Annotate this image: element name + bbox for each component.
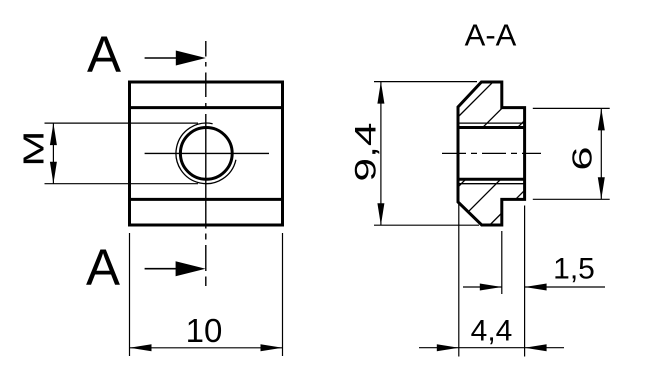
hatch line c610	[483, 108, 502, 127]
thread major diameter line upper	[458, 122, 525, 124]
dimension 1,5 extension lines	[501, 231, 503, 294]
top view lower step edge	[130, 198, 283, 201]
thread bore line lower	[458, 178, 525, 181]
thread major diameter line lower	[458, 183, 525, 185]
hatch line c645 lower	[458, 180, 465, 187]
svg-text:M: M	[18, 130, 50, 166]
hatch line c715 step	[516, 190, 525, 199]
svg-text:10: 10	[186, 312, 223, 349]
threaded hole bore circle	[180, 127, 232, 179]
dimension 1,5 line	[463, 286, 502, 288]
svg-text:A: A	[86, 239, 120, 296]
dimension 10 line	[130, 347, 283, 349]
hatch line c575	[458, 82, 493, 117]
vertical centerline	[205, 41, 207, 286]
hatch line c645 upper	[518, 121, 525, 128]
dimension 9,4 line	[380, 82, 382, 226]
dimension M extension lines	[45, 122, 199, 124]
dimension 4,4 line	[419, 347, 564, 349]
dimension M line	[52, 123, 54, 184]
dimension 9,4 extension lines	[374, 81, 477, 83]
dimension 6 line	[600, 108, 602, 199]
svg-text:6: 6	[566, 147, 597, 171]
section arrow bottom	[145, 268, 180, 270]
section centerline	[442, 152, 541, 154]
section outline	[458, 82, 525, 225]
top view outline	[130, 82, 283, 225]
svg-text:1,5: 1,5	[553, 253, 595, 286]
dimension 6 extension lines	[533, 107, 610, 109]
hatch line c715 bottom	[490, 213, 502, 225]
top view upper step edge	[130, 106, 283, 109]
svg-text:A-A: A-A	[465, 18, 517, 53]
dimension 10 extension lines	[129, 233, 131, 356]
section arrow top	[145, 57, 180, 59]
horizontal centerline	[145, 152, 269, 154]
svg-text:A: A	[87, 26, 121, 83]
svg-text:9,4: 9,4	[349, 122, 382, 181]
hatch line c680	[468, 180, 500, 212]
thread major diameter arc	[176, 123, 236, 184]
thread bore line upper	[458, 126, 525, 129]
dimension 4,4 extension line	[458, 203, 460, 357]
svg-text:4,4: 4,4	[471, 315, 513, 348]
